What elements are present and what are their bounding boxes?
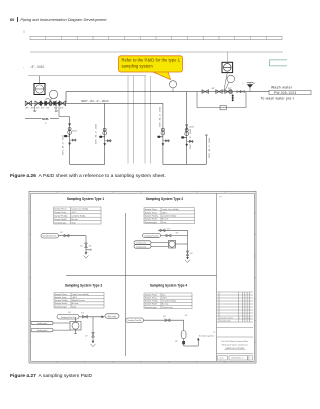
svg-text:Slightly Viscous: Slightly Viscous xyxy=(72,299,85,302)
svg-text:h: h xyxy=(243,83,244,85)
svg-text:Grab: Grab xyxy=(72,305,76,308)
svg-text:Sample Fluidity: Sample Fluidity xyxy=(145,300,158,303)
svg-text:<60°C: <60°C xyxy=(71,211,77,214)
svg-text:Sampling Point No.: Sampling Point No. xyxy=(144,235,159,238)
svg-text:-: - xyxy=(23,65,24,69)
svg-text:Complete fluidity: Complete fluidity xyxy=(162,300,176,303)
svg-text:3/4": 3/4" xyxy=(89,246,92,248)
svg-text:3/4": 3/4" xyxy=(253,83,256,85)
svg-text:Sampling type: Sampling type xyxy=(54,221,66,224)
svg-text:Sample Fluidity: Sample Fluidity xyxy=(54,214,67,217)
svg-text:3/4": 3/4" xyxy=(165,140,169,142)
svg-text:3/4": 3/4" xyxy=(46,108,50,110)
svg-text:3/4": 3/4" xyxy=(60,232,63,234)
svg-text:Complete fluidity: Complete fluidity xyxy=(71,214,85,217)
svg-text:Sampling Point No.: Sampling Point No. xyxy=(61,316,76,319)
svg-text:3/4": 3/4" xyxy=(212,88,216,90)
svg-text:(3/4"): (3/4") xyxy=(72,131,77,133)
svg-text:0007 - 84 - 4" - 0010: 0007 - 84 - 4" - 0010 xyxy=(81,99,109,103)
svg-text:Sampling System Type 2: Sampling System Type 2 xyxy=(146,197,184,201)
svg-text:Cooling water: Cooling water xyxy=(136,246,147,249)
svg-text:Sample Phase: Sample Phase xyxy=(55,294,67,296)
svg-text:3/4": 3/4" xyxy=(176,233,179,235)
svg-text:Sampling type: Sampling type xyxy=(145,306,157,309)
svg-text:3/4": 3/4" xyxy=(107,140,111,142)
svg-text:3/4": 3/4" xyxy=(167,229,170,231)
svg-text:Sample Phase: Sample Phase xyxy=(145,294,157,296)
svg-text:Sample Temp.: Sample Temp. xyxy=(145,298,158,300)
svg-text:x: x xyxy=(239,318,240,320)
svg-text:Mechanical Vapour Compressor: Mechanical Vapour Compressor xyxy=(222,344,249,347)
svg-text:(3/4"): (3/4") xyxy=(189,127,194,129)
svg-text:Sampling System Type 3: Sampling System Type 3 xyxy=(65,283,103,287)
svg-text:Sampling Point No.: Sampling Point No. xyxy=(127,319,142,322)
svg-text:D: D xyxy=(249,358,251,360)
svg-text:SAMPLING SYSTEMS: SAMPLING SYSTEMS xyxy=(225,347,245,350)
svg-text:Wash water: Wash water xyxy=(271,86,293,90)
svg-text:Sampling System Type 1: Sampling System Type 1 xyxy=(67,197,105,201)
svg-text:SUB: SUB xyxy=(42,117,49,121)
svg-text:Cooling water: Cooling water xyxy=(37,322,48,325)
svg-text:Sampling System Type 4: Sampling System Type 4 xyxy=(150,283,188,287)
svg-text:- 8" - 0010: - 8" - 0010 xyxy=(30,65,45,69)
svg-text:x: x xyxy=(246,318,247,320)
svg-text:x: x xyxy=(243,318,244,320)
svg-text:Sampling type: Sampling type xyxy=(55,305,67,308)
svg-text:Liquid, Low volatility: Liquid, Low volatility xyxy=(72,293,89,296)
svg-text:Sample Health: Sample Health xyxy=(145,218,157,221)
svg-text:Liquid, Low volatility: Liquid, Low volatility xyxy=(162,208,179,211)
svg-text:Issued for review: Issued for review xyxy=(220,317,234,320)
svg-text:xx-xx: xx-xx xyxy=(220,358,224,360)
svg-text:x: x xyxy=(248,318,249,320)
svg-text:3/4": 3/4" xyxy=(60,108,64,110)
svg-text:Sample Temp.: Sample Temp. xyxy=(145,212,158,214)
svg-text:Sample Fluidity: Sample Fluidity xyxy=(145,215,158,218)
svg-text:After cooler: After cooler xyxy=(108,315,117,318)
svg-text:1/2": 1/2" xyxy=(85,335,88,337)
svg-text:F: F xyxy=(45,123,47,125)
svg-text:Grab: Grab xyxy=(71,221,75,224)
svg-text:Sample Temp.: Sample Temp. xyxy=(55,297,68,299)
svg-text:3/4": 3/4" xyxy=(185,315,188,317)
svg-text:Grab: Grab xyxy=(162,221,166,224)
svg-text:0007 - 84 - 4" - 0010: 0007 - 84 - 4" - 0010 xyxy=(63,134,65,155)
svg-text:sampling system: sampling system xyxy=(122,64,154,69)
svg-text:x: x xyxy=(250,318,251,320)
svg-text:No toxic: No toxic xyxy=(72,302,79,305)
svg-text:0007 - 84 - 4" - 0010: 0007 - 84 - 4" - 0010 xyxy=(190,128,192,149)
svg-text:3/4": 3/4" xyxy=(68,312,71,314)
svg-text:Cooling water: Cooling water xyxy=(37,329,48,332)
svg-text:0007 - 84 - 4" - 0010: 0007 - 84 - 4" - 0010 xyxy=(209,137,211,158)
svg-text:>60°C: >60°C xyxy=(162,211,168,214)
svg-text:Sample Health: Sample Health xyxy=(54,218,66,221)
svg-text:3/4": 3/4" xyxy=(31,108,35,110)
svg-text:Sample Phase: Sample Phase xyxy=(54,209,66,211)
svg-text:No toxic: No toxic xyxy=(162,303,169,306)
svg-text:No toxic: No toxic xyxy=(162,218,169,221)
svg-text:Closed Loop: Closed Loop xyxy=(162,307,173,309)
svg-text:Sample Phase: Sample Phase xyxy=(145,209,157,211)
svg-text:To drain system: To drain system xyxy=(199,334,214,337)
svg-text:3/4": 3/4" xyxy=(163,316,166,318)
svg-text:To wash water pre-t: To wash water pre-t xyxy=(261,97,294,101)
svg-text:<60°C: <60°C xyxy=(162,297,168,300)
svg-text:Complete fluidity: Complete fluidity xyxy=(162,215,176,218)
svg-text:Issued for IDC: Issued for IDC xyxy=(220,320,232,323)
svg-text:Sample Fluidity: Sample Fluidity xyxy=(55,299,68,302)
svg-text:NC: NC xyxy=(80,246,83,248)
svg-text:0007 - 84 - 4" - 0010: 0007 - 84 - 4" - 0010 xyxy=(96,123,98,144)
svg-text:Unit 1400 Water Treatment Plan: Unit 1400 Water Treatment Plant xyxy=(221,340,248,343)
svg-text:Cooling water: Cooling water xyxy=(136,242,147,245)
svg-text:Sample Health: Sample Health xyxy=(55,302,67,305)
svg-text:Liquid, Low volatility: Liquid, Low volatility xyxy=(71,208,88,211)
svg-text:Refer to the P&ID for the type: Refer to the P&ID for the type 1 xyxy=(122,58,181,63)
svg-text:Sample Health: Sample Health xyxy=(145,303,157,306)
svg-text:Sample Temp.: Sample Temp. xyxy=(54,212,67,214)
svg-text:Sampling type: Sampling type xyxy=(145,221,157,224)
svg-text:Gas: Gas xyxy=(162,294,166,296)
svg-text:Sampling Point No.: Sampling Point No. xyxy=(42,235,57,238)
svg-text:3/4": 3/4" xyxy=(36,108,40,110)
svg-text:1/2": 1/2" xyxy=(81,312,84,314)
svg-text:PW-005-1003: PW-005-1003 xyxy=(274,91,296,95)
svg-text:3/4": 3/4" xyxy=(175,341,178,343)
svg-text:3/4": 3/4" xyxy=(190,253,193,255)
svg-text:<60°C: <60°C xyxy=(72,296,78,299)
svg-text:1400-SP-001 - 0: 1400-SP-001 - 0 xyxy=(231,358,243,360)
svg-text:0007 - 84 - 4" - 0010: 0007 - 84 - 4" - 0010 xyxy=(160,106,162,127)
svg-text:xxx: xxx xyxy=(219,196,222,198)
svg-text:3/4": 3/4" xyxy=(41,108,45,110)
svg-text:No toxic: No toxic xyxy=(71,218,78,221)
svg-text:3/4": 3/4" xyxy=(25,108,29,110)
svg-text:3/4": 3/4" xyxy=(228,88,232,90)
